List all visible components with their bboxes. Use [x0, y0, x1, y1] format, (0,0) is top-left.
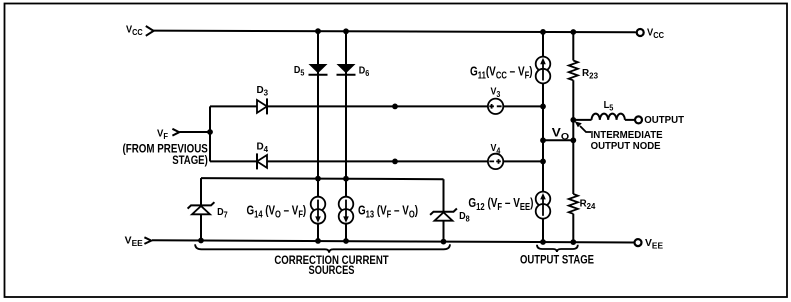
svg-text:INTERMEDIATE: INTERMEDIATE: [591, 130, 663, 141]
svg-text:OUTPUT: OUTPUT: [644, 115, 684, 126]
svg-text:OUTPUT STAGE: OUTPUT STAGE: [520, 254, 594, 266]
svg-text:SOURCES: SOURCES: [309, 265, 355, 277]
svg-text:(FROM PREVIOUS: (FROM PREVIOUS: [123, 143, 209, 155]
svg-text:OUTPUT NODE: OUTPUT NODE: [591, 141, 661, 152]
svg-text:STAGE): STAGE): [172, 155, 208, 167]
